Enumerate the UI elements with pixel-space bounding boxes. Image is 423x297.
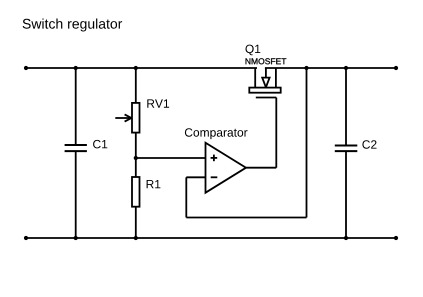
wire gate horizontal xyxy=(256,97,276,99)
node junction C1 bottom xyxy=(74,236,78,240)
pin plus sign xyxy=(211,155,218,162)
capacitor C2 xyxy=(335,146,358,152)
node A divider junction xyxy=(134,156,138,160)
potentiometer RV1 xyxy=(115,103,139,133)
wire output to gate vertical xyxy=(275,98,277,168)
node terminal top right xyxy=(394,66,398,70)
node junction R1 bottom xyxy=(134,236,138,240)
transistor Q1 NMOSFET xyxy=(249,68,280,93)
label C1 xyxy=(93,140,107,149)
wire RV1 to node A xyxy=(135,133,137,158)
wire C1 branch upper xyxy=(75,68,77,144)
node junction C2 bottom xyxy=(344,236,348,240)
resistor R1 xyxy=(132,177,140,207)
wire top rail left segment xyxy=(26,67,257,69)
label R1 xyxy=(147,180,161,188)
label Comparator xyxy=(185,128,248,139)
wire C2 branch lower xyxy=(345,152,347,238)
wire comparator output xyxy=(246,167,276,169)
wire feedback right vertical to output node xyxy=(306,68,308,218)
wire top rail right segment xyxy=(265,67,396,69)
wire comparator minus input xyxy=(186,176,205,178)
value label NMOSFET xyxy=(246,58,287,64)
label Q1 xyxy=(246,45,261,56)
wire RV1 branch upper xyxy=(135,68,137,103)
wire C2 branch upper xyxy=(345,68,347,145)
capacitor C1 xyxy=(65,145,87,151)
label RV1 xyxy=(147,99,169,107)
title Switch regulator xyxy=(23,19,123,32)
node terminal top left xyxy=(24,66,28,70)
node terminal bottom right xyxy=(394,236,398,240)
label C2 xyxy=(362,140,376,149)
op-amp U1 comparator triangle xyxy=(206,143,247,193)
node junction C2 top xyxy=(344,66,348,70)
node terminal bottom left xyxy=(24,236,28,240)
pin minus sign xyxy=(211,176,218,178)
wire feedback bottom horizontal xyxy=(186,217,306,219)
wire feedback left vertical xyxy=(185,177,187,217)
wire node A to comparator plus input xyxy=(136,157,206,159)
wire bottom rail xyxy=(26,237,396,239)
wire R1 to bottom rail xyxy=(135,207,137,238)
node junction feedback top xyxy=(304,66,308,70)
node junction RV1 top xyxy=(134,66,138,70)
wire node A to R1 xyxy=(135,158,137,177)
node junction C1 top xyxy=(74,66,78,70)
wire C1 branch lower xyxy=(75,152,77,238)
